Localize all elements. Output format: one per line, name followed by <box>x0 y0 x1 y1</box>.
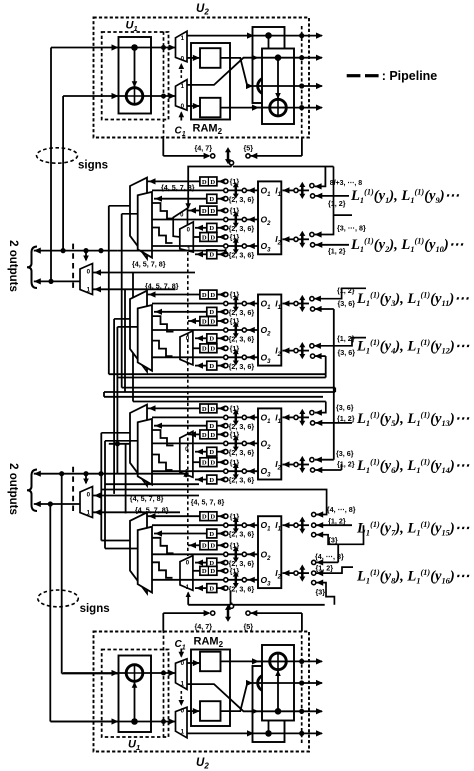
wire demux D2-1 bypass crossing (bottom) <box>187 684 251 711</box>
block 3 group 1 D register <box>207 421 217 430</box>
block 1 group 3 D register <box>207 250 217 259</box>
svg-text:{2, 3, 6}: {2, 3, 6} <box>229 195 255 204</box>
svg-text:{3, 6}: {3, 6} <box>338 299 356 308</box>
hairpin rail 2 turn <box>334 388 336 392</box>
input switch <box>283 461 290 467</box>
svg-text:{2, 3, 6}: {2, 3, 6} <box>229 335 255 344</box>
output wire 3 (top) <box>251 85 322 87</box>
svg-text:D: D <box>210 432 215 439</box>
front internal wire (top) <box>277 58 279 99</box>
2-outputs select arrow down <box>85 251 87 260</box>
2-outputs wire upper <box>34 473 118 475</box>
block 1 merge trapezoid B <box>138 192 152 258</box>
svg-text:1: 1 <box>181 729 185 736</box>
pipeline dashed line right (bottom) <box>301 633 303 743</box>
2-outputs upper wire extension bottom <box>117 473 186 475</box>
switch tap node (top) <box>229 161 233 165</box>
block 4 group 2 output wire <box>152 553 258 555</box>
svg-text:D: D <box>202 292 207 299</box>
demux D1 (top) <box>176 31 188 62</box>
pipeline dot b (top) <box>161 94 166 99</box>
block 1 group 2 output wire <box>152 219 258 221</box>
C1 control arrow (bottom) <box>180 649 182 657</box>
block 2 group 2 D register wire <box>195 337 207 339</box>
block 2 group 1 DD register wire <box>148 294 201 296</box>
wire cell1 out crossing (top) <box>221 58 252 86</box>
gap wire y484 <box>105 483 199 485</box>
input switch <box>283 236 290 242</box>
wire input b (bottom) <box>63 672 118 674</box>
block 2 trapezoid output wires <box>114 318 130 320</box>
long vertical v3 <box>116 327 118 474</box>
back node dot (bottom) <box>265 730 272 737</box>
RAM2 memory cell 2 (bottom) <box>200 652 221 672</box>
block 3 group 2 DD register wire <box>188 433 200 435</box>
svg-text:D: D <box>210 460 215 467</box>
wire demux D1-0 to cell1 (bottom) <box>187 710 200 712</box>
wire input a (top) <box>51 47 119 49</box>
block 2 group 2 D register <box>207 334 217 343</box>
long vertical v2 <box>113 319 115 494</box>
svg-text:{4, 5, 7, 8}: {4, 5, 7, 8} <box>135 506 169 515</box>
demux D2 (top) <box>176 80 188 111</box>
svg-text:D: D <box>202 208 207 215</box>
block 3 merge trapezoid B <box>138 419 152 485</box>
long vertical v5 <box>124 289 126 392</box>
block 4 group 3 D register wire <box>195 587 207 589</box>
block 3 group 3 DD register <box>200 458 217 467</box>
control dashed line through mux chain <box>187 252 189 556</box>
block 2 group 3 DD register <box>200 344 217 353</box>
back node dot (top) <box>265 32 272 39</box>
hairpin rail 1 turn <box>325 374 327 377</box>
svg-text:{1, 2}: {1, 2} <box>328 199 346 208</box>
row5 top feed <box>315 402 326 413</box>
block 3 merge trapezoid A <box>130 405 147 486</box>
hairpin rail 2 upper <box>122 387 336 389</box>
combine stage back rectangle (top) <box>253 27 285 103</box>
hairpin rail 1 lower <box>117 377 325 379</box>
block 3 group 1 DD register wire <box>148 407 201 409</box>
svg-text:D: D <box>210 543 215 550</box>
block 3 group 1 D register wire <box>154 425 207 427</box>
block 1 group 3 D register wire <box>195 253 207 255</box>
block 4 group 3 output wire <box>152 579 258 581</box>
svg-text:1: 1 <box>181 680 185 687</box>
svg-text:signs: signs <box>78 160 108 172</box>
block 2 group 3 output wire <box>152 356 258 358</box>
block 4 group 2 D register wire <box>195 562 207 564</box>
2-outputs mux input 0 wire <box>93 272 196 274</box>
row5 bottom feed <box>315 422 352 424</box>
input switch <box>283 300 290 306</box>
front XOR gate (bottom) <box>270 653 287 670</box>
svg-text:D: D <box>209 423 214 430</box>
combine stage front rectangle (top) <box>262 49 294 125</box>
block 4 staircase wires <box>152 538 174 554</box>
svg-text:D: D <box>209 252 214 259</box>
svg-text:: Pipeline: : Pipeline <box>382 69 438 83</box>
row7 top feed from gap rail <box>101 490 326 515</box>
svg-text:D: D <box>210 234 215 241</box>
long vertical v7 <box>100 433 102 541</box>
U2 dashed block boundary (bottom) <box>94 632 310 752</box>
front XOR gate (top) <box>270 99 287 116</box>
block 3 group 3 DD register wire <box>193 461 200 463</box>
long vertical v6 <box>132 273 134 402</box>
2-outputs mux <box>80 264 93 295</box>
block 2 group 2 DD register wire <box>188 320 200 322</box>
block 2 merge trapezoid A <box>130 291 147 372</box>
output wire 2 (top) <box>251 57 322 59</box>
svg-text:{3, 6}: {3, 6} <box>338 348 356 357</box>
block 1 group 2 D register wire <box>195 227 207 229</box>
svg-text:8l+3, ⋯, 8: 8l+3, ⋯, 8 <box>330 180 363 187</box>
row4 bottom feed to hairpin <box>315 355 326 357</box>
block 4 group 1 output wire <box>152 524 258 526</box>
block 1 group 2 DD register wire <box>188 210 200 212</box>
U1 pass-through node (top) <box>119 47 176 49</box>
back XOR gate (bottom) <box>258 675 275 692</box>
row8 third feed loop <box>316 583 334 605</box>
combine stage back rectangle (bottom) <box>253 666 285 742</box>
2-outputs mux <box>80 487 93 518</box>
block 3 group 2 DD register <box>200 430 217 439</box>
row2 top feed <box>315 167 334 235</box>
pipeline dashed line inside U1 (bottom) <box>163 632 165 738</box>
block 3 O/I register box <box>258 408 281 479</box>
row7 third feed loop <box>316 525 363 544</box>
block 4 merge trapezoid B <box>138 527 152 593</box>
pipeline dot b (bottom) <box>161 671 166 676</box>
U1 pass-through node (bottom) <box>119 721 176 723</box>
output wire 4 (top) <box>251 107 322 109</box>
block 4 group 2 D register <box>207 558 217 567</box>
input switch <box>283 187 290 193</box>
svg-text:{2, 3, 6}: {2, 3, 6} <box>229 251 255 260</box>
row1 bottom feed <box>315 195 349 197</box>
hairpin rail 2 lower <box>104 391 335 393</box>
long feed vertical x334 <box>333 309 335 460</box>
svg-text:{5}: {5} <box>244 144 254 153</box>
svg-text:0: 0 <box>181 103 185 110</box>
block 4 group 3 DD register wire <box>193 570 200 572</box>
block1 mux C1 feed <box>188 167 231 209</box>
svg-text:1: 1 <box>181 83 185 90</box>
long vertical v9 <box>125 444 127 514</box>
block 2 group 1 D register wire <box>154 311 207 313</box>
svg-text:{4, ⋯, 8}: {4, ⋯, 8} <box>327 505 356 514</box>
pipeline dashed line right (top) <box>301 26 303 136</box>
svg-text:D: D <box>209 309 214 316</box>
svg-text:D: D <box>209 477 214 484</box>
block 2 group 2 DD register <box>200 317 217 326</box>
svg-text:{1, 2}: {1, 2} <box>328 517 346 526</box>
svg-text:D: D <box>209 449 214 456</box>
block 1 group 1 DD register wire <box>148 180 201 182</box>
block 2 group 1 output wire <box>152 303 258 305</box>
svg-text:{4, 5, 7, 8}: {4, 5, 7, 8} <box>132 260 166 269</box>
svg-text:{4, 5, 7, 8}: {4, 5, 7, 8} <box>145 282 179 291</box>
svg-text:D: D <box>210 346 215 353</box>
block 1 group 1 DD register <box>200 177 217 186</box>
demux D1 (bottom) <box>176 707 188 738</box>
row5 feed rail <box>133 401 326 403</box>
svg-text:{2, 3, 6}: {2, 3, 6} <box>229 476 255 485</box>
wire cell2 out to front XOR (top) <box>221 107 271 109</box>
C1 control arrow (top) <box>180 113 182 121</box>
2-outputs upper wire extension top <box>117 250 225 252</box>
svg-text:D: D <box>202 568 207 575</box>
block 4 group 1 D register wire <box>154 533 207 535</box>
svg-text:D: D <box>202 406 207 413</box>
U1 internal wire (top) <box>134 48 136 89</box>
svg-text:D: D <box>210 514 215 521</box>
left rail 4 (bottom) <box>49 504 51 722</box>
hairpin rail 1 upper <box>109 373 326 375</box>
block 1 trapezoid output wires <box>109 205 130 207</box>
svg-text:{4, 7}: {4, 7} <box>195 144 213 153</box>
svg-text:{3}: {3} <box>328 536 338 545</box>
block 4 trapezoid output wires <box>101 540 130 542</box>
svg-text:D: D <box>209 196 214 203</box>
svg-text:{2, 3, 6}: {2, 3, 6} <box>229 530 255 539</box>
input switch <box>283 570 290 576</box>
block 3 small mux C <box>180 431 193 477</box>
gap wire y443 <box>109 443 145 445</box>
block 2 group 3 DD register wire <box>193 347 200 349</box>
output wire 1 (top) <box>187 35 322 37</box>
row7 mid feed <box>316 524 352 526</box>
switch tap node (bottom) <box>229 604 233 608</box>
block 3 trapezoid output wires <box>101 432 130 434</box>
block 4 group 1 D register <box>207 529 217 538</box>
RAM2 box (bottom) <box>191 650 230 727</box>
svg-text:{2, 3, 6}: {2, 3, 6} <box>229 362 255 371</box>
signs ellipse bottom <box>38 590 79 607</box>
svg-text:D: D <box>210 208 215 215</box>
input switch <box>283 522 290 528</box>
block 1 staircase wires <box>152 203 174 219</box>
block 2 small mux C <box>180 331 193 365</box>
svg-text:{4, 5, 7, 8}: {4, 5, 7, 8} <box>161 183 195 192</box>
svg-text:D: D <box>210 406 215 413</box>
row1 top feed from {4,7} switch <box>233 166 334 168</box>
wire demux D2-0 to cell2 (top) <box>187 105 200 107</box>
block 4 O/I register box <box>258 516 281 588</box>
svg-text:{1, 2}: {1, 2} <box>337 460 355 469</box>
wire input a (bottom) <box>51 721 119 723</box>
2-outputs select arrow down <box>85 474 87 483</box>
wire input b (top) <box>63 95 118 97</box>
svg-text:{3, 6}: {3, 6} <box>336 403 354 412</box>
signs ellipse top <box>37 148 78 163</box>
svg-text:D: D <box>202 234 207 241</box>
wire cell2 out to front XOR (bottom) <box>221 660 271 662</box>
svg-text:D: D <box>202 432 207 439</box>
wire demux D2-0 to cell2 (bottom) <box>187 662 200 664</box>
2 outputs brace bottom <box>27 470 37 512</box>
block 1 small mux C1 <box>173 208 187 238</box>
svg-text:D: D <box>210 292 215 299</box>
wire demux D2-1 bypass crossing (top) <box>187 58 251 85</box>
back XOR gate (top) <box>258 78 275 95</box>
svg-text:0: 0 <box>181 708 185 715</box>
2-outputs wire upper <box>34 250 118 252</box>
svg-text:{1, 2}: {1, 2} <box>316 564 334 573</box>
front node dot (top) <box>275 54 282 61</box>
svg-text:{1, 2}: {1, 2} <box>337 286 355 295</box>
input switch <box>283 348 290 354</box>
2-outputs mux input 1 wire <box>93 288 176 290</box>
svg-text:D: D <box>209 336 214 343</box>
svg-text:{5}: {5} <box>244 622 254 631</box>
RAM2 box (top) <box>191 43 230 120</box>
svg-text:D: D <box>202 346 207 353</box>
2-outputs mux input 1 wire <box>93 511 181 513</box>
svg-text:1: 1 <box>87 510 91 517</box>
input switch <box>283 414 290 420</box>
block 4 group 1 DD register <box>200 512 217 521</box>
pipeline dot a (top) <box>161 45 166 50</box>
svg-text:D: D <box>209 363 214 370</box>
RAM2 memory cell 2 (top) <box>200 98 221 118</box>
block 1 group 2 D register <box>207 223 217 232</box>
block 3 group 1 DD register <box>200 404 217 413</box>
svg-text:{1, 2}: {1, 2} <box>337 334 355 343</box>
svg-text:{4, 7}: {4, 7} <box>195 622 213 631</box>
U1 internal wire (bottom) <box>134 681 136 722</box>
block 4 group 3 DD register <box>200 566 217 575</box>
block 4 group 1 DD register wire <box>148 515 201 517</box>
svg-text:1: 1 <box>87 287 91 294</box>
block 3 group 1 output wire <box>152 416 258 418</box>
block 3 group 3 D register wire <box>195 479 207 481</box>
2-outputs mux input 0 wire <box>93 495 200 497</box>
svg-text:1: 1 <box>181 35 185 42</box>
left rail 1 <box>50 48 52 282</box>
U2 dashed block boundary (top) <box>94 18 310 138</box>
output wire 2 (bottom) <box>251 710 322 712</box>
hairpin rail 3 turn <box>103 392 105 397</box>
block 3 staircase wires <box>152 430 174 446</box>
block 1 group 1 D register wire <box>154 198 207 200</box>
left rail 2 <box>62 96 64 251</box>
block 3 group 2 output wire <box>152 442 258 444</box>
svg-text:0: 0 <box>181 55 185 62</box>
wire cell1 out crossing (bottom) <box>221 683 252 711</box>
svg-text:0: 0 <box>87 492 91 499</box>
long vertical v4 <box>121 214 123 388</box>
block 4 group 2 DD register wire <box>188 544 200 546</box>
block 2 group 1 DD register <box>200 290 217 299</box>
block 1 group 3 DD register wire <box>193 236 200 238</box>
svg-text:{3, ⋯, 8}: {3, ⋯, 8} <box>337 224 366 233</box>
row3 top feed <box>314 288 366 298</box>
row8 mid feed <box>316 567 353 573</box>
output wire 4 (bottom) <box>251 660 322 662</box>
RAM2 memory cell 1 (bottom) <box>200 701 221 721</box>
2-outputs pipeline dash <box>72 467 74 513</box>
wire demux D1-0 to cell1 (top) <box>187 57 200 59</box>
block 2 merge trapezoid B <box>138 305 152 371</box>
row2 bottom feed <box>315 244 349 246</box>
svg-text:D: D <box>210 568 215 575</box>
bottom feed wire from block4 <box>188 604 325 606</box>
svg-text:{3, 6}: {3, 6} <box>336 449 354 458</box>
block 2 group 3 D register <box>207 361 217 370</box>
front internal wire (bottom) <box>277 671 279 712</box>
svg-text:2 outputs: 2 outputs <box>7 240 19 292</box>
switch row 4-7/5 (bottom) <box>162 613 164 631</box>
block 4 small mux C <box>180 556 193 591</box>
block 2 group 3 D register wire <box>195 365 207 367</box>
row6 top feed <box>315 459 334 461</box>
U1 register rectangle (top) <box>119 37 152 114</box>
pipeline legend <box>347 74 361 77</box>
U1 dashed block boundary (top) <box>102 32 169 120</box>
svg-text:{2, 3, 6}: {2, 3, 6} <box>229 584 255 593</box>
svg-text:{4, 5, 7, 8}: {4, 5, 7, 8} <box>191 498 225 507</box>
svg-text:0: 0 <box>87 269 91 276</box>
svg-text:{3}: {3} <box>316 588 326 597</box>
row4 top feed <box>314 338 366 346</box>
svg-text:D: D <box>209 531 214 538</box>
block 1 group 3 DD register <box>200 233 217 242</box>
svg-text:2 outputs: 2 outputs <box>7 463 19 515</box>
svg-text:D: D <box>202 318 207 325</box>
svg-text:{2, 3, 6}: {2, 3, 6} <box>229 448 255 457</box>
svg-text:signs: signs <box>80 603 110 615</box>
row6 bottom feed <box>315 469 341 471</box>
block 3 group 3 output wire <box>152 470 258 472</box>
svg-text:{1, 2}: {1, 2} <box>328 247 346 256</box>
long vertical v8 <box>104 441 106 549</box>
block 2 group 1 D register <box>207 307 217 316</box>
2-outputs wire lower <box>34 503 80 505</box>
hairpin rail 3 lower <box>104 396 323 398</box>
block 3 group 2 D register <box>207 447 217 456</box>
switch row 4-7/5 (top) <box>162 138 164 156</box>
block 4 group 3 D register <box>207 584 217 593</box>
output wire 3 (bottom) <box>251 682 322 684</box>
output wire 1 (bottom) <box>187 732 322 734</box>
block 1 small mux C2 <box>180 222 194 252</box>
svg-text:D: D <box>209 225 214 232</box>
block 1 group 2 DD register <box>200 206 217 215</box>
block 1 O/I register box <box>258 181 281 254</box>
block 1 group 3 output wire <box>152 245 258 247</box>
front node dot (bottom) <box>275 708 282 715</box>
block 2 O/I register box <box>258 295 281 366</box>
block 1 group 1 output wire <box>152 189 258 191</box>
long vertical v1 <box>108 206 110 374</box>
combine stage front rectangle (bottom) <box>262 645 294 721</box>
block 4 merge trapezoid A <box>130 512 147 593</box>
row8 top feed <box>316 561 338 563</box>
left rail 3 (bottom) <box>61 474 63 674</box>
block 2 staircase wires <box>152 316 174 332</box>
block 4 group 2 DD register <box>200 541 217 550</box>
RAM2 memory cell 1 (top) <box>200 48 221 68</box>
block 3 group 2 D register wire <box>195 451 207 453</box>
row3 bottom feed from long vertical <box>315 308 334 310</box>
2-outputs wire lower <box>34 280 80 282</box>
svg-text:D: D <box>209 586 214 593</box>
2-outputs pipeline dash <box>72 244 74 291</box>
svg-text:{1, 2}: {1, 2} <box>337 414 355 423</box>
svg-text:0: 0 <box>181 660 185 667</box>
